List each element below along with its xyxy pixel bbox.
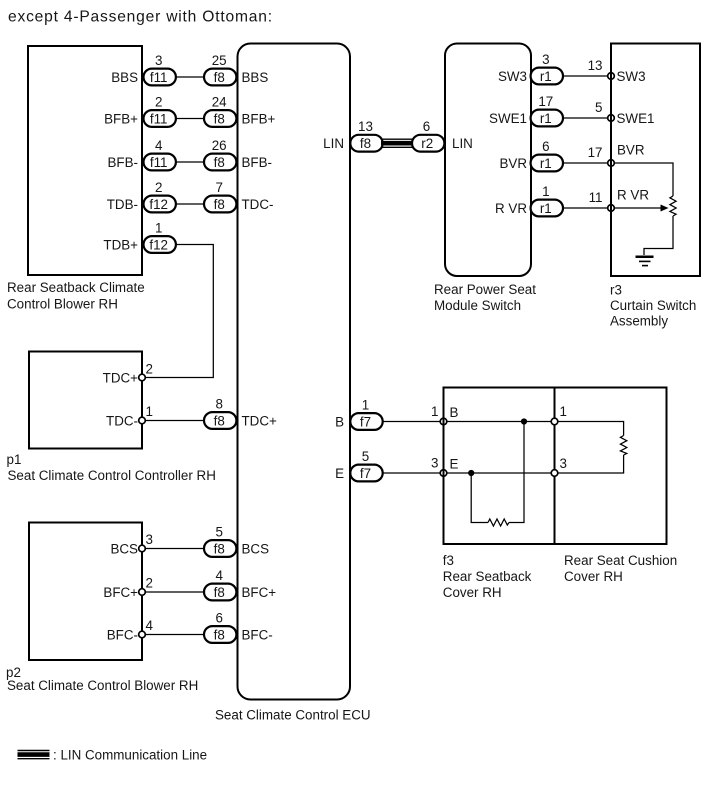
svg-text:1: 1 [155,221,162,236]
svg-text:BBS: BBS [242,70,269,85]
wire BBS to ECU [176,76,204,78]
node pin 1 on Rear Seatback Cover RH [440,418,447,425]
svg-text:BFC-: BFC- [107,627,138,642]
svg-text:25: 25 [212,53,227,68]
svg-text:5: 5 [215,525,222,540]
svg-text:f8: f8 [214,70,225,85]
svg-text:except 4-Passenger with Ottoma: except 4-Passenger with Ottoman: [8,9,273,26]
connector f11 (BBS) [144,69,176,86]
svg-text:f3: f3 [443,553,454,568]
svg-text:f11: f11 [150,111,168,126]
svg-text:E: E [335,466,344,481]
svg-text:Rear Seat Cushion: Rear Seat Cushion [564,553,677,568]
svg-text:B: B [450,405,459,420]
junction dot on E row [468,470,474,476]
svg-text:Cover RH: Cover RH [564,569,623,584]
sensor loop with resistor (Rear Seatback Cover) [471,422,524,527]
svg-text:TDB+: TDB+ [103,237,138,252]
svg-text:f8: f8 [214,627,225,642]
wire BVR to potentiometer top [614,163,673,196]
component box: Curtain Switch Assembly r3 [611,44,700,277]
svg-text:f8: f8 [214,155,225,170]
connector f7 pin 5 (E) [350,465,382,482]
label: p2 Seat Climate Control Blower RH [6,665,198,693]
node pin 3 on Rear Seat Cushion Cover RH [551,470,558,477]
svg-text:3: 3 [155,53,162,68]
svg-text:Control Blower RH: Control Blower RH [7,297,118,312]
svg-text:4: 4 [146,618,154,633]
svg-text:3: 3 [560,456,567,471]
label: p1 Seat Climate Control Controller RH [7,452,216,483]
svg-text:r1: r1 [540,156,552,171]
connector f8 pin 4 (BFC+) [204,584,236,601]
node pin 3 on p2 (BCS) [139,545,146,552]
legend: LIN communication line symbol [18,751,50,759]
svg-text:Assembly: Assembly [610,314,668,329]
svg-text:TDC+: TDC+ [103,370,139,385]
svg-text:Seat Climate Control ECU: Seat Climate Control ECU [215,707,371,722]
svg-text:r1: r1 [540,111,552,126]
svg-text:f8: f8 [214,585,225,600]
connector r1 (R VR) [531,200,563,217]
node pin 2 on p2 (BFC+) [139,589,146,596]
svg-text:R VR: R VR [617,188,649,203]
wire E row inside Rear Seatback Cover [447,472,551,474]
connector f8 pin 8 (TDC+) [204,412,236,429]
svg-text:Cover RH: Cover RH [443,585,502,600]
svg-text:r1: r1 [540,201,552,216]
junction dot on B row [521,418,527,424]
svg-text:BFB+: BFB+ [242,111,276,126]
svg-text:1: 1 [542,184,549,199]
svg-text:3: 3 [146,532,153,547]
svg-text:f7: f7 [360,414,371,429]
LIN communication line (thick bus) [381,139,414,147]
node pin 2 on p1 (TDC+) [139,374,146,381]
svg-text:5: 5 [362,449,369,464]
svg-text:f8: f8 [214,413,225,428]
svg-text:4: 4 [215,568,223,583]
svg-text:Rear Seatback: Rear Seatback [443,569,532,584]
svg-text:1: 1 [146,404,153,419]
svg-text:f12: f12 [149,197,168,212]
svg-text:17: 17 [588,145,603,160]
svg-text:6: 6 [215,611,222,626]
svg-text:LIN: LIN [452,136,473,151]
wire R VR to Curtain Switch Assembly [563,207,608,209]
node pin 1 on Rear Seat Cushion Cover RH [551,418,558,425]
svg-text:SWE1: SWE1 [489,111,527,126]
svg-text:BFC-: BFC- [242,627,273,642]
svg-text:TDC-: TDC- [106,413,138,428]
connector f12 (TDB-) [144,196,176,213]
label: r3 Curtain Switch Assembly [610,283,696,329]
svg-text:BFC+: BFC+ [103,585,138,600]
label: Rear Power Seat Module Switch [434,282,536,313]
svg-text:BFB+: BFB+ [104,111,138,126]
resistor loop (Rear Seat Cushion Cover) [558,422,627,474]
wire TDB- to ECU [176,203,204,205]
svg-text:B: B [335,414,344,429]
connector f8 pin 26 (BFB-) [204,154,236,171]
svg-text:f8: f8 [214,197,225,212]
component box: Rear Power Seat Module Switch [445,44,531,277]
connector r2 pin 6 (LIN) [412,135,444,152]
divider between Rear Seatback Cover RH and Rear Seat Cushion Cover RH [554,388,556,545]
wire TDC- to ECU [145,420,204,422]
connector f8 pin 24 (BFB+) [204,110,236,127]
wire BFB- to ECU [176,161,204,163]
svg-text:Seat Climate Control Controlle: Seat Climate Control Controller RH [8,468,216,483]
svg-text:f8: f8 [360,136,371,151]
svg-text:5: 5 [595,100,602,115]
svg-text:13: 13 [358,119,373,134]
svg-text:BFC+: BFC+ [242,585,277,600]
svg-text:f7: f7 [360,466,371,481]
svg-text:BVR: BVR [617,143,645,158]
svg-text:r3: r3 [610,283,622,298]
svg-text:TDC-: TDC- [242,197,274,212]
svg-text:6: 6 [542,139,549,154]
wire B row inside Rear Seatback Cover [447,421,551,423]
svg-text:p1: p1 [7,452,22,467]
component box: Seat Climate Control ECU [238,44,351,700]
wire B to Rear Seatback Cover [383,421,440,423]
connector f7 pin 1 (B) [350,413,382,430]
component box: p1 Seat Climate Control Controller RH [29,352,142,449]
svg-text:E: E [450,457,459,472]
connector f8 pin 5 (BCS) [204,540,236,557]
connector f12 (TDB+) [144,236,176,253]
svg-text:f8: f8 [214,111,225,126]
potentiometer wiper arrow [661,205,669,212]
connector f11 (BFB-) [144,154,176,171]
connector r1 (BVR) [531,155,563,172]
svg-text:7: 7 [215,180,222,195]
wire BFC- to ECU [145,634,204,636]
connector f8 pin 25 (BBS) [204,69,236,86]
node pin 1 on p1 (TDC-) [139,417,146,424]
svg-text:SWE1: SWE1 [617,111,655,126]
svg-text:Rear Seatback Climate: Rear Seatback Climate [7,280,145,295]
connector r1 (SWE1) [531,110,563,127]
node pin 3 on Rear Seatback Cover RH [440,470,447,477]
wire BFC+ to ECU [145,591,204,593]
svg-text:2: 2 [146,362,153,377]
svg-text:SW3: SW3 [498,69,527,84]
svg-text:f11: f11 [150,155,168,170]
connector f8 pin 13 (LIN) [350,135,382,152]
svg-text:BBS: BBS [111,70,138,85]
svg-text:BCS: BCS [110,541,138,556]
connector f11 (BFB+) [144,110,176,127]
component box: Rear Seatback Cover RH / Rear Seat Cushion Cover RH [444,388,667,545]
node pin 17 on Curtain Switch Assembly [608,160,615,167]
svg-text:2: 2 [146,576,153,591]
svg-text:8: 8 [215,397,222,412]
label: f3 Rear Seatback Cover RH [443,553,532,600]
svg-text:f8: f8 [214,541,225,556]
label: Rear Seatback Climate Control Blower RH [7,280,145,312]
wire SWE1 to Curtain Switch Assembly [563,117,608,119]
svg-text:6: 6 [423,119,430,134]
potentiometer r3 (vertical zigzag resistor) [670,196,676,216]
svg-text:f11: f11 [150,70,168,85]
svg-text:Curtain Switch: Curtain Switch [610,298,696,313]
svg-text:LIN: LIN [323,136,344,151]
svg-text:26: 26 [212,138,227,153]
svg-text:BCS: BCS [242,541,270,556]
svg-text:3: 3 [431,456,438,471]
svg-text:f12: f12 [149,237,168,252]
svg-text:1: 1 [431,404,438,419]
wire potentiometer to ground [644,216,673,255]
svg-text:1: 1 [560,404,567,419]
svg-text:3: 3 [542,52,549,67]
wire BFB+ to ECU [176,118,204,120]
wire BVR to Curtain Switch Assembly [563,162,608,164]
svg-text:1: 1 [362,398,369,413]
label: Rear Seat Cushion Cover RH [564,553,677,584]
svg-text:TDB-: TDB- [107,197,138,212]
ground symbol [636,257,654,266]
svg-text:Module Switch: Module Switch [434,298,521,313]
svg-text:2: 2 [155,180,162,195]
svg-text:24: 24 [212,95,227,110]
svg-text:TDC+: TDC+ [242,413,278,428]
svg-text:BVR: BVR [499,156,527,171]
wire BCS to ECU [145,548,204,550]
node pin 4 on p2 (BFC-) [139,631,146,638]
svg-text:: LIN Communication Line: : LIN Communication Line [53,748,207,763]
wire R VR to potentiometer wiper [614,207,660,209]
wire TDB+ to TDC+ of p1 [145,245,213,378]
svg-text:11: 11 [589,190,603,205]
connector r1 (SW3) [531,68,563,85]
svg-text:Seat Climate Control Blower RH: Seat Climate Control Blower RH [7,678,198,693]
svg-text:4: 4 [155,138,163,153]
connector f8 pin 7 (TDC-) [204,196,236,213]
svg-text:2: 2 [155,95,162,110]
svg-text:Rear Power Seat: Rear Power Seat [434,282,536,297]
svg-text:13: 13 [588,58,603,73]
svg-text:17: 17 [538,94,553,109]
component box: p2 Seat Climate Control Blower RH [29,523,142,661]
svg-text:r2: r2 [421,136,433,151]
svg-text:r1: r1 [540,69,552,84]
wire E to Rear Seatback Cover [383,472,440,474]
svg-text:BFB-: BFB- [242,155,273,170]
wire SW3 to Curtain Switch Assembly [563,75,608,77]
svg-text:BFB-: BFB- [107,155,138,170]
svg-text:R VR: R VR [495,201,527,216]
node pin 11 on Curtain Switch Assembly [608,205,615,212]
connector f8 pin 6 (BFC-) [204,626,236,643]
component box: Rear Seatback Climate Control Blower RH [28,46,142,275]
node pin 5 on Curtain Switch Assembly [608,115,615,122]
svg-text:SW3: SW3 [617,69,646,84]
node pin 13 on Curtain Switch Assembly [608,73,615,80]
